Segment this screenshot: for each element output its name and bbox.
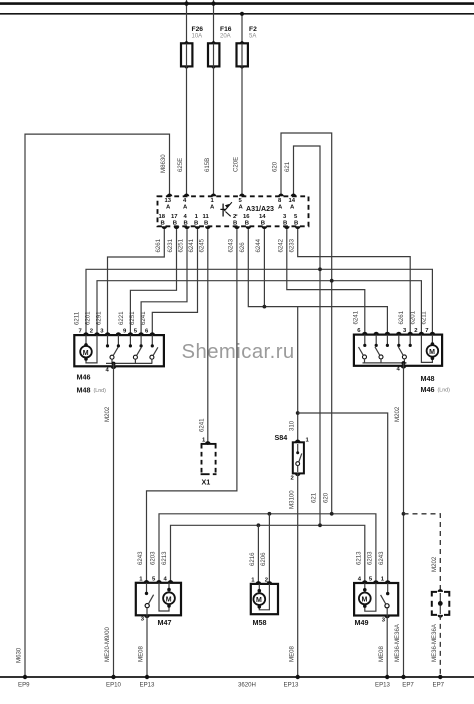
- svg-text:615B: 615B: [204, 158, 211, 172]
- svg-text:M49: M49: [355, 618, 369, 627]
- motor M47 mirror left: [136, 583, 181, 627]
- switch contacts M48: [363, 335, 412, 347]
- fuse F16: [208, 26, 232, 69]
- svg-text:M: M: [429, 349, 435, 356]
- wire M202 M46 pin 4 to ground EP10: [113, 363, 115, 677]
- svg-text:ME08: ME08: [138, 645, 145, 662]
- pin 3B: [283, 214, 290, 229]
- svg-text:EP7: EP7: [402, 682, 414, 689]
- svg-text:14: 14: [289, 198, 296, 204]
- pin 4B: [184, 214, 190, 229]
- svg-text:6241: 6241: [353, 310, 360, 324]
- svg-text:6203: 6203: [150, 551, 157, 565]
- svg-text:6251: 6251: [129, 311, 136, 325]
- switch lever 2 M46: [133, 347, 141, 363]
- svg-text:A: A: [210, 204, 215, 210]
- svg-text:6261: 6261: [155, 238, 162, 252]
- svg-text:310: 310: [288, 420, 295, 431]
- motor symbol M47: [159, 583, 175, 611]
- pin 4 M49: [362, 580, 368, 583]
- svg-text:20A: 20A: [220, 34, 231, 40]
- svg-text:EP13: EP13: [284, 682, 300, 689]
- wire node to M49 pin 1: [298, 413, 388, 583]
- svg-text:F2: F2: [249, 26, 257, 33]
- pin 2 M46: [94, 332, 100, 335]
- svg-text:B: B: [161, 220, 165, 226]
- wire M202 dashed branch to connector: [404, 514, 441, 592]
- svg-text:B: B: [283, 220, 287, 226]
- svg-text:M46: M46: [421, 385, 435, 394]
- wire fuse F16 supply: [213, 0, 215, 43]
- wire switch common M46: [106, 362, 152, 364]
- pin 2 M58: [267, 581, 273, 584]
- pin 3 M49: [384, 616, 390, 619]
- svg-text:EP13: EP13: [375, 682, 391, 689]
- svg-text:M202: M202: [394, 406, 401, 422]
- svg-text:B: B: [261, 220, 265, 226]
- svg-text:5A: 5A: [249, 34, 256, 40]
- wire 6251 pin 4B to M46 pin 5: [141, 229, 187, 335]
- svg-text:14: 14: [259, 214, 266, 220]
- motor M46 window lift left: [74, 335, 164, 394]
- pin spare M46: [116, 332, 122, 335]
- wire 625E fuse F26 to pin 4A: [186, 66, 188, 196]
- pin 2B: [233, 214, 240, 229]
- wire 6241 pin 1B to M46 pin 6: [152, 229, 197, 335]
- svg-text:6241: 6241: [199, 418, 206, 432]
- ground EP7: [401, 675, 405, 679]
- switch M49: [381, 583, 390, 616]
- svg-text:6242: 6242: [278, 238, 285, 252]
- svg-text:A: A: [239, 204, 244, 210]
- wire M58 pin 2 drop: [268, 514, 270, 584]
- svg-text:M: M: [83, 350, 89, 357]
- pin 17B: [171, 214, 179, 229]
- svg-text:6243: 6243: [228, 238, 235, 252]
- svg-text:16: 16: [243, 214, 250, 220]
- svg-text:M58: M58: [253, 618, 267, 627]
- pin 3 M47: [144, 615, 150, 618]
- svg-text:S84: S84: [275, 433, 288, 442]
- pin 5A: [239, 194, 245, 211]
- svg-text:M: M: [256, 597, 262, 604]
- svg-text:B: B: [233, 220, 237, 226]
- svg-text:6211: 6211: [420, 311, 427, 325]
- pin 2 M48: [419, 332, 425, 335]
- svg-text:10A: 10A: [192, 34, 203, 40]
- svg-text:F16: F16: [220, 26, 232, 33]
- svg-text:EP10: EP10: [106, 682, 122, 689]
- ground EP9: [23, 675, 27, 679]
- pin 5 M48: [373, 332, 379, 335]
- wire 6243 pin 2B to M47 pin 1: [147, 229, 237, 583]
- pin 1A: [210, 194, 216, 211]
- pin 5 M49: [373, 580, 379, 583]
- svg-text:A: A: [290, 204, 295, 210]
- svg-text:C20E: C20E: [233, 157, 240, 172]
- wire M8630 ground for pin 13A: [25, 134, 170, 677]
- svg-text:621: 621: [284, 161, 291, 172]
- wire ME08 M47 pin 3 to ground EP13: [146, 615, 148, 677]
- svg-text:6213: 6213: [355, 551, 362, 565]
- svg-text:6201: 6201: [409, 310, 416, 324]
- switch lever 2 M48: [375, 347, 383, 363]
- svg-text:620: 620: [272, 161, 279, 172]
- svg-text:6245: 6245: [199, 238, 206, 252]
- svg-text:M3100: M3100: [288, 490, 295, 509]
- ground bus: [0, 676, 474, 678]
- svg-text:ME36-ME36A: ME36-ME36A: [431, 623, 438, 662]
- switch lever 1 M46: [110, 347, 118, 363]
- svg-text:M202: M202: [431, 556, 438, 572]
- pin 3 M46: [105, 332, 111, 335]
- svg-text:M47: M47: [158, 618, 172, 627]
- svg-text:M48: M48: [77, 386, 91, 395]
- switch lever 1 M48: [359, 347, 367, 363]
- svg-text:B: B: [194, 220, 198, 226]
- svg-text:M48: M48: [421, 374, 435, 383]
- bus line B+ top: [0, 2, 474, 5]
- wire 6244 pin 14B joins node: [263, 229, 265, 307]
- bus line ignition: [0, 13, 474, 15]
- ground EP13 left: [145, 675, 149, 679]
- svg-text:6251: 6251: [178, 238, 185, 252]
- pin 18B: [159, 214, 168, 229]
- svg-text:M: M: [166, 596, 172, 603]
- wire rail lower pin4 motors: [171, 525, 365, 583]
- pin 6 M46: [150, 332, 156, 335]
- motor M49 mirror right: [354, 583, 398, 627]
- pin 5B: [294, 214, 301, 229]
- pin 4 M46: [111, 366, 117, 369]
- pin 16B: [243, 214, 251, 229]
- pin 14B: [259, 214, 267, 229]
- motor symbol M49: [359, 583, 376, 611]
- pin 14A: [289, 194, 297, 211]
- svg-text:620: 620: [323, 492, 330, 503]
- pin 7 M46: [83, 332, 89, 335]
- pin 9 M46: [128, 332, 134, 335]
- node junction F2 on ignition bus: [240, 12, 244, 16]
- svg-text:626: 626: [239, 242, 246, 253]
- svg-text:6216: 6216: [249, 552, 256, 566]
- svg-text:Shemicar.ru: Shemicar.ru: [182, 341, 295, 363]
- transistor symbol inside A31/A23: [222, 204, 224, 217]
- pin 1 M49: [385, 580, 391, 583]
- svg-text:6243: 6243: [378, 551, 385, 565]
- motor symbol M58: [253, 584, 269, 610]
- svg-text:18: 18: [159, 214, 166, 220]
- pin 1B: [194, 214, 200, 229]
- switch S84 one-touch: [275, 433, 310, 482]
- svg-text:(Lnd): (Lnd): [94, 388, 107, 394]
- motor symbol M48: [421, 335, 438, 363]
- svg-text:A: A: [166, 204, 171, 210]
- fuse F2: [237, 26, 258, 69]
- svg-text:F26: F26: [192, 26, 204, 33]
- wire 6261 pin 18B to M46 pin 3: [108, 229, 165, 335]
- svg-text:EP9: EP9: [18, 682, 30, 689]
- svg-text:3620H: 3620H: [238, 682, 256, 689]
- ground EP7 right: [438, 675, 442, 679]
- svg-text:13: 13: [165, 198, 172, 204]
- pin 4A: [183, 194, 189, 211]
- wire 620 pin 8A loop to right: [281, 133, 332, 514]
- motor M58: [251, 584, 278, 627]
- wire M58 pin 1 drop: [257, 525, 259, 584]
- connector X right dashed: [432, 589, 450, 618]
- wire ME36-ME36A connector to ground EP7: [439, 615, 441, 677]
- svg-text:17: 17: [171, 214, 178, 220]
- wire 6245 pin 11B to connector X1: [207, 229, 209, 445]
- svg-text:EP7: EP7: [433, 682, 445, 689]
- svg-text:M630: M630: [16, 647, 23, 663]
- wire M3100 S84 to ground EP13: [297, 473, 299, 677]
- wire 621 pin 14A loop to right: [294, 146, 321, 525]
- pin 13A: [165, 194, 173, 211]
- connector X1: [201, 438, 217, 487]
- pin 1 M58: [256, 581, 262, 584]
- svg-text:M202: M202: [104, 406, 111, 422]
- wire 310 branch to switch S84: [297, 307, 299, 443]
- svg-text:M8630: M8630: [160, 154, 167, 173]
- wire 615B fuse F16 to pin 1A: [213, 66, 215, 196]
- ground EP13 mid: [296, 675, 300, 679]
- pin 4 M48: [401, 366, 407, 369]
- switch M47: [145, 583, 154, 616]
- svg-text:(Lnd): (Lnd): [438, 388, 451, 394]
- motor M48 window lift right: [354, 335, 450, 394]
- svg-text:A31/A23: A31/A23: [246, 205, 274, 213]
- op-amp control unit A31/A23: [158, 196, 309, 226]
- svg-text:625E: 625E: [177, 158, 184, 172]
- motor symbol M46: [80, 335, 97, 363]
- svg-text:A: A: [183, 204, 188, 210]
- pin 4 M47: [168, 580, 174, 583]
- svg-text:ME08: ME08: [288, 645, 295, 662]
- svg-text:6243: 6243: [137, 551, 144, 565]
- wire M202 M48 pin 4 to ground EP7: [403, 363, 405, 677]
- svg-text:B: B: [204, 220, 208, 226]
- svg-text:6231: 6231: [167, 238, 174, 252]
- svg-text:EP13: EP13: [140, 682, 156, 689]
- svg-text:6213: 6213: [161, 551, 168, 565]
- svg-text:X1: X1: [202, 478, 211, 487]
- wire rail lower pin5 motors: [159, 514, 376, 583]
- svg-text:6291: 6291: [95, 311, 102, 325]
- wire 6231 pin 17B to M46 pin 9: [130, 229, 176, 335]
- pin 3 M48: [407, 332, 413, 335]
- pin 1 M47: [144, 580, 150, 583]
- svg-text:ME36-ME36A: ME36-ME36A: [394, 623, 401, 662]
- svg-text:6203: 6203: [366, 551, 373, 565]
- pin 7 M48: [430, 332, 436, 335]
- wire C20E fuse F2 to pin 5A: [241, 66, 243, 196]
- svg-text:B: B: [184, 220, 188, 226]
- svg-text:6261: 6261: [398, 310, 405, 324]
- wire fuse F2 supply: [241, 14, 243, 44]
- svg-text:M46: M46: [77, 373, 91, 382]
- svg-text:6233: 6233: [288, 238, 295, 252]
- switch lever 3 M48: [398, 347, 406, 363]
- fuse F26: [181, 26, 203, 69]
- ground EP10: [111, 675, 115, 679]
- ground EP13 right: [385, 675, 389, 679]
- svg-text:B: B: [245, 220, 249, 226]
- pin 11B: [203, 214, 211, 229]
- svg-text:6241: 6241: [140, 311, 147, 325]
- wire rail motor positive: [86, 269, 432, 335]
- svg-text:6244: 6244: [255, 238, 262, 252]
- wire ME08 M49 pin 3 to ground EP13: [386, 616, 388, 678]
- pin 6 M48: [362, 332, 368, 335]
- svg-text:6201: 6201: [85, 311, 92, 325]
- wire rail motor negative: [97, 281, 421, 335]
- svg-text:11: 11: [203, 214, 210, 220]
- svg-text:M: M: [362, 597, 368, 604]
- pin 5 M46: [138, 332, 144, 335]
- wire 6242 pin 3B to M48 pin 6: [287, 229, 365, 335]
- wire 6233 pin 5B to M48 pin 3: [298, 229, 411, 335]
- svg-text:6206: 6206: [260, 552, 267, 566]
- wire fuse F26 supply: [186, 0, 188, 43]
- svg-text:ME20-M9/00: ME20-M9/00: [104, 627, 111, 662]
- svg-text:B: B: [173, 220, 177, 226]
- svg-text:B: B: [294, 220, 298, 226]
- svg-text:6221: 6221: [118, 311, 125, 325]
- wire 626 pin 16B to M48 pin 9: [248, 229, 387, 335]
- svg-text:A: A: [278, 204, 283, 210]
- svg-text:6211: 6211: [74, 311, 81, 325]
- pin spare M48: [396, 332, 402, 335]
- svg-text:ME08: ME08: [378, 645, 385, 662]
- svg-text:621: 621: [311, 492, 318, 503]
- pin 9 M48: [385, 332, 391, 335]
- pin 8A: [278, 194, 284, 211]
- wire switch common M48: [363, 362, 407, 364]
- svg-text:6241: 6241: [188, 238, 195, 252]
- switch contacts M46: [106, 335, 154, 347]
- switch lever 3 M46: [150, 347, 158, 363]
- pin 5 M47: [156, 580, 162, 583]
